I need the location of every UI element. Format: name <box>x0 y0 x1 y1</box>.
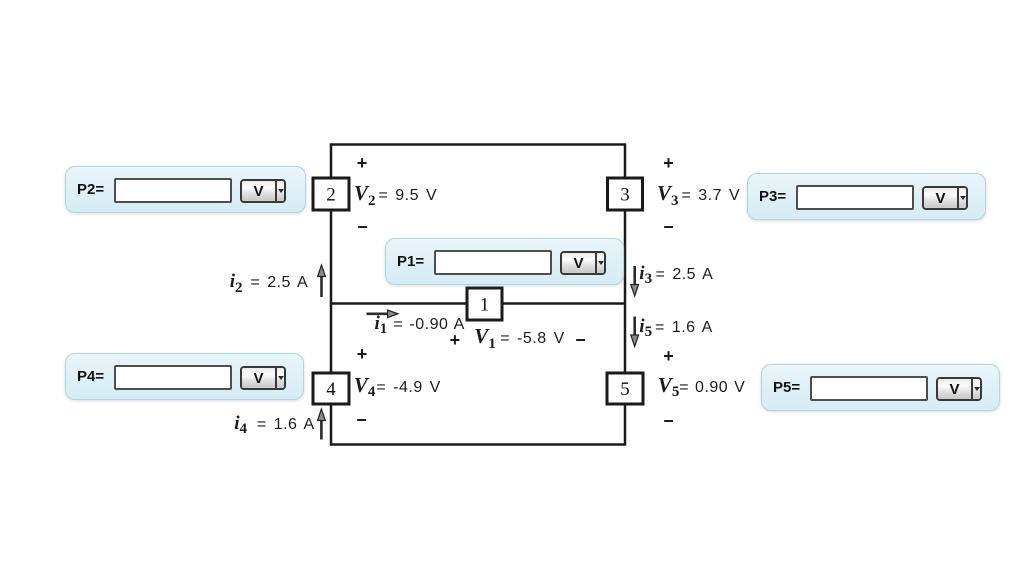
svg-text:5: 5 <box>620 379 630 400</box>
svg-text:4: 4 <box>326 379 336 400</box>
svg-text:3: 3 <box>620 184 630 205</box>
svg-text:1: 1 <box>480 294 490 315</box>
svg-text:2: 2 <box>326 184 336 205</box>
